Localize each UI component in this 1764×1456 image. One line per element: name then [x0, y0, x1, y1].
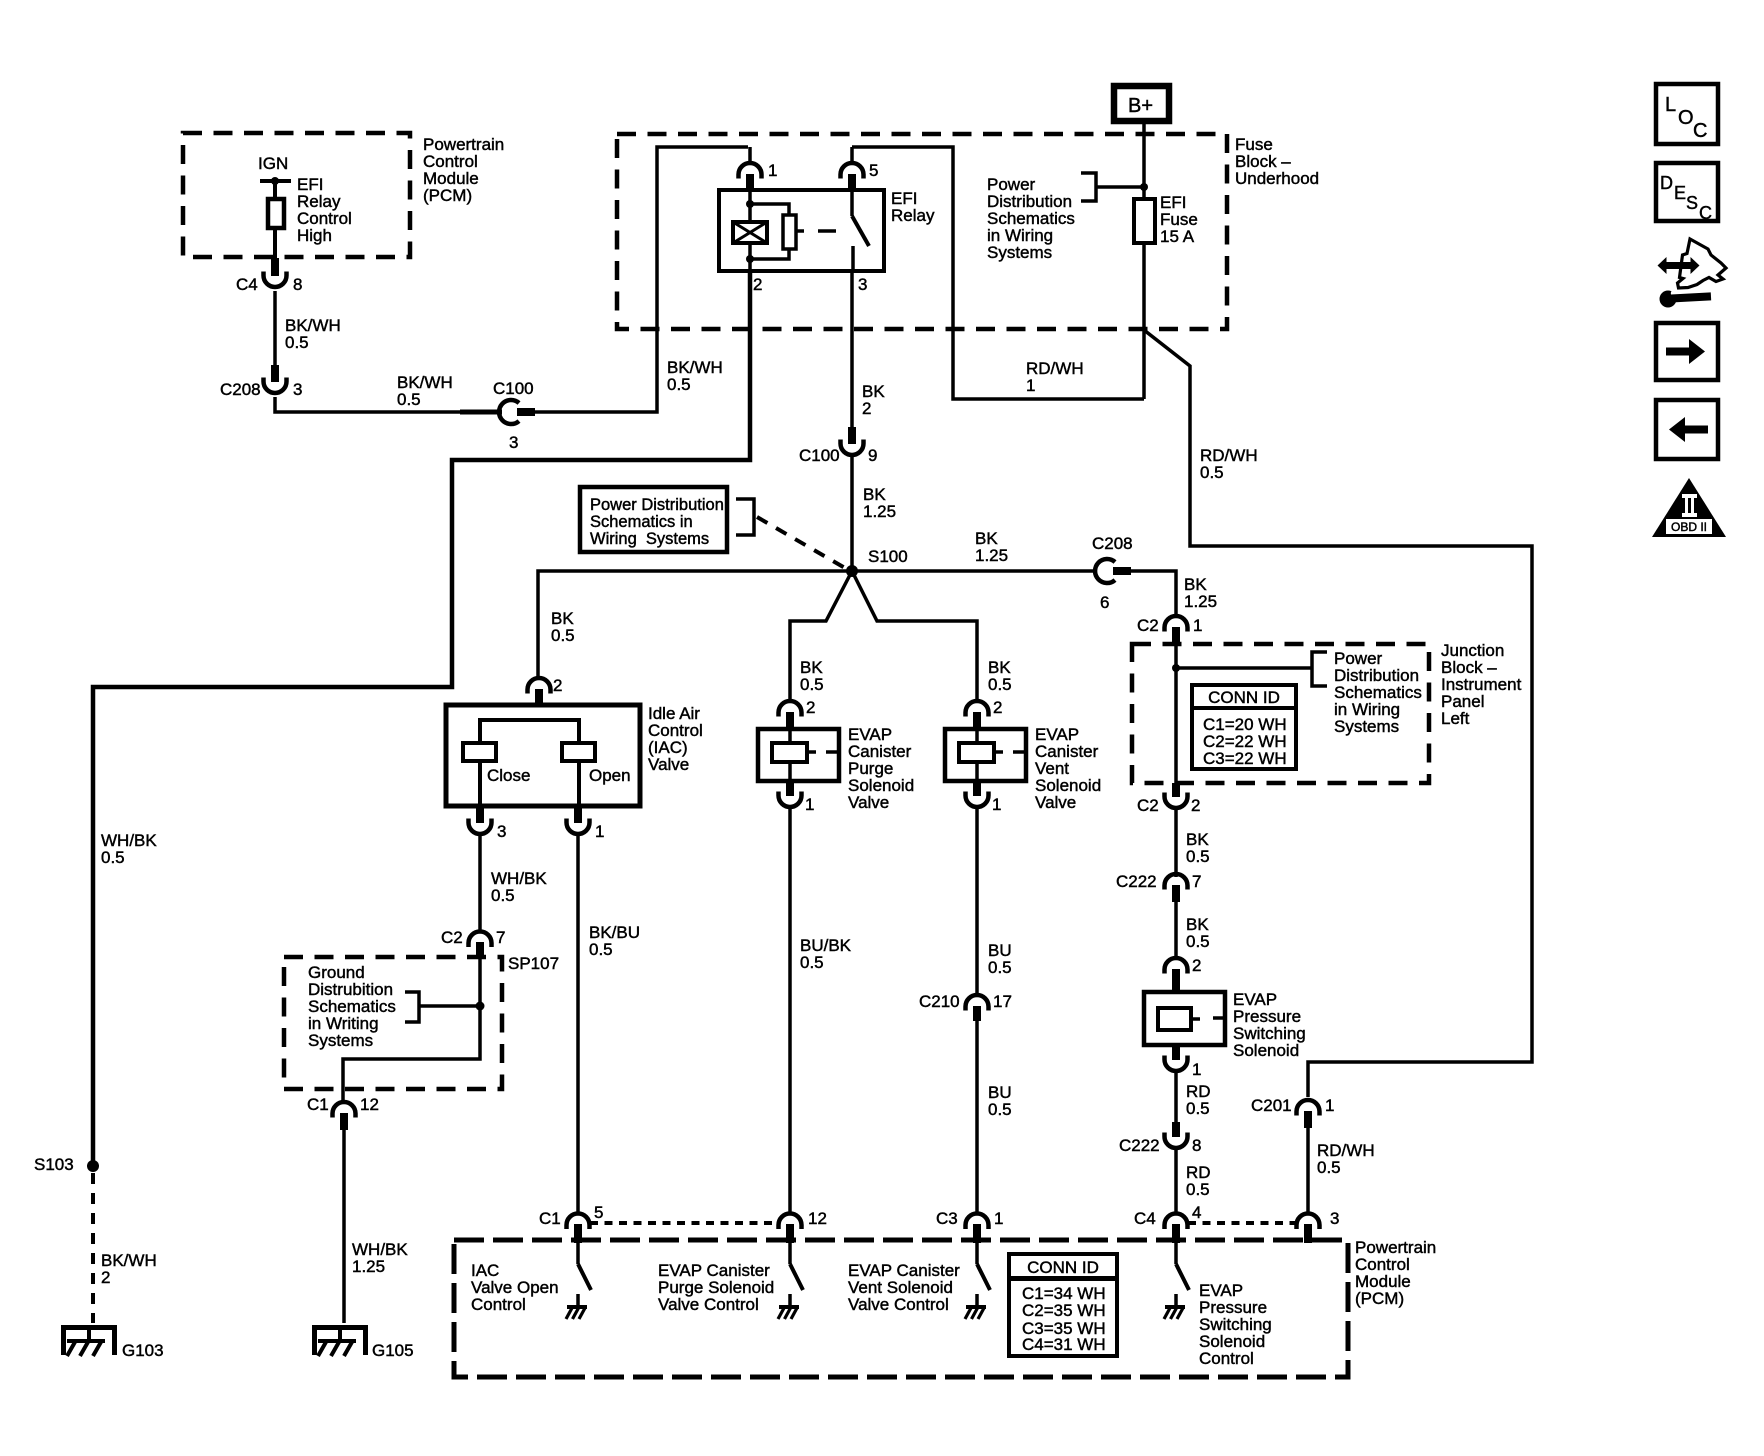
wire label BK 0.5	[1186, 915, 1210, 951]
svg-text:9: 9	[868, 446, 877, 465]
driver pressure switching solenoid control	[1164, 1243, 1189, 1319]
resistor EFI Relay Control High	[268, 199, 284, 228]
svg-text:Left: Left	[1441, 709, 1470, 728]
connector PCM pin 3	[1297, 1214, 1320, 1244]
svg-text:B+: B+	[1128, 95, 1153, 117]
connector C4 pin 4	[1165, 1214, 1188, 1244]
svg-text:Systems: Systems	[1334, 717, 1399, 736]
ground G105	[312, 1325, 368, 1356]
label pin 2	[1191, 796, 1200, 815]
wire C222-7 to solenoid pin2 BK 0.5	[1174, 902, 1178, 960]
label Open	[589, 766, 631, 785]
svg-text:1: 1	[595, 822, 604, 841]
svg-text:7: 7	[496, 928, 505, 947]
label EVAP Canister Vent Solenoid Valve	[1035, 725, 1101, 812]
label C3	[936, 1209, 958, 1228]
label pin 1	[1325, 1096, 1334, 1115]
wire B+ to fuse	[1140, 121, 1148, 199]
label pin 12	[808, 1209, 827, 1228]
svg-text:E: E	[1674, 183, 1686, 203]
label SP107	[508, 954, 559, 973]
connector relay pin 5	[841, 163, 864, 191]
connector PCM pin 12	[779, 1214, 802, 1244]
svg-text:IGN: IGN	[258, 154, 288, 173]
label pin 3	[497, 822, 506, 841]
svg-text:15 A: 15 A	[1160, 227, 1195, 246]
connector pressure solenoid pin 2	[1165, 958, 1188, 992]
svg-text:C4: C4	[236, 275, 258, 294]
connector C1 pin 12	[333, 1102, 356, 1130]
label Ground Distrubition Schematics in Writing Systems	[308, 963, 396, 1050]
svg-text:0.5: 0.5	[988, 675, 1012, 694]
svg-text:C201: C201	[1251, 1096, 1292, 1115]
note box Power Distribution Schematics in Wiring Systems	[580, 487, 727, 552]
label pin 8	[293, 275, 302, 294]
wire IAC pin3 to C2-7 WH/BK	[478, 832, 482, 933]
svg-text:12: 12	[360, 1095, 379, 1114]
IAC open winding	[562, 743, 595, 806]
label Fuse Block - Underhood	[1235, 135, 1319, 188]
svg-text:L: L	[1665, 94, 1676, 116]
svg-text:(PCM): (PCM)	[1355, 1289, 1404, 1308]
label pin 4	[1192, 1203, 1201, 1222]
label pin 2	[553, 676, 562, 695]
label pin 1	[1192, 1060, 1201, 1079]
bracket ground ref	[405, 992, 419, 1022]
driver IAC valve open control	[566, 1243, 591, 1319]
label C1	[307, 1095, 329, 1114]
wire C208-6 to C2-1 BK 1.25	[1131, 571, 1176, 618]
valve Idle Air Control box	[446, 705, 640, 806]
svg-text:1: 1	[1192, 1060, 1201, 1079]
svg-text:5: 5	[594, 1203, 603, 1222]
svg-text:Systems: Systems	[308, 1031, 373, 1050]
connector C210 pin 17	[966, 995, 989, 1021]
svg-text:0.5: 0.5	[491, 886, 515, 905]
svg-text:(PCM): (PCM)	[423, 186, 472, 205]
svg-text:Underhood: Underhood	[1235, 169, 1319, 188]
svg-text:2: 2	[862, 399, 871, 418]
svg-text:2: 2	[753, 275, 762, 294]
bracket note ref	[736, 499, 754, 535]
wire label WH/BK 0.5	[101, 831, 157, 867]
svg-text:0.5: 0.5	[285, 333, 309, 352]
svg-text:0.5: 0.5	[397, 390, 421, 409]
label EVAP Canister Purge Solenoid Valve Control	[658, 1261, 774, 1314]
svg-text:0.5: 0.5	[551, 626, 575, 645]
module box Ground Distribution ref (dashed)	[284, 957, 502, 1089]
dashed link C1-5 to 12	[590, 1221, 778, 1225]
svg-text:0.5: 0.5	[101, 848, 125, 867]
driver vent solenoid control	[965, 1243, 990, 1319]
wire C100-9 to S100 BK 1.25	[850, 453, 854, 566]
connector IAC pin 3	[469, 806, 492, 834]
label Idle Air Control (IAC) Valve	[648, 704, 703, 774]
label pin 3	[509, 433, 518, 452]
relay actuator link	[796, 229, 836, 233]
connector C208 pin 6 (inline)	[1095, 559, 1131, 583]
label Power Distribution Schematics in Wiring Systems	[1334, 649, 1422, 736]
connector pressure solenoid pin 1	[1165, 1045, 1188, 1071]
svg-text:3: 3	[497, 822, 506, 841]
svg-text:1: 1	[994, 1209, 1003, 1228]
label Powertrain Control Module (PCM)	[423, 135, 504, 205]
svg-text:2: 2	[806, 698, 815, 717]
label pin 7	[496, 928, 505, 947]
svg-text:C210: C210	[919, 992, 960, 1011]
svg-text:0.5: 0.5	[1200, 463, 1224, 482]
wire C1-12 to G105 WH/BK 1.25	[342, 1130, 346, 1323]
svg-text:1: 1	[1026, 376, 1035, 395]
label Junction Block - Instrument Panel Left	[1441, 641, 1522, 728]
svg-text:Wiring Systems: Wiring Systems	[590, 530, 709, 548]
label pin 3	[293, 380, 302, 399]
wire S103 to G103 BK/WH 2 (dashed)	[91, 1173, 95, 1323]
fuse EFI Fuse 15A	[1134, 199, 1155, 243]
icon back arrow box	[1656, 400, 1718, 459]
wire label RD 0.5	[1186, 1082, 1211, 1118]
svg-text:C: C	[1699, 203, 1712, 223]
wire label BK 0.5	[1186, 830, 1210, 866]
wire label BU/BK 0.5	[800, 936, 852, 972]
bracket junction ref	[1312, 652, 1327, 686]
label pin 1	[994, 1209, 1003, 1228]
wire label WH/BK 1.25	[352, 1240, 408, 1276]
wire label BK 2	[862, 382, 885, 418]
svg-text:O: O	[1678, 107, 1694, 129]
wire RD/WH 1 fuse to relay pin5	[852, 147, 1144, 399]
label EVAP Canister Purge Solenoid Valve	[848, 725, 914, 812]
svg-text:6: 6	[1100, 593, 1109, 612]
svg-text:Relay: Relay	[891, 206, 935, 225]
wire S100 to vent pin2 BK 0.5	[852, 571, 977, 703]
wire S100 to purge pin2 BK 0.5	[790, 571, 852, 703]
label pin 2	[993, 698, 1002, 717]
svg-text:2: 2	[553, 676, 562, 695]
svg-text:1: 1	[768, 161, 777, 180]
svg-text:C3: C3	[936, 1209, 958, 1228]
svg-text:7: 7	[1192, 872, 1201, 891]
connector C2 pin 1	[1165, 616, 1188, 645]
table CONN ID junction block	[1192, 685, 1296, 769]
svg-text:0.5: 0.5	[589, 940, 613, 959]
wire label BK/WH 0.5	[285, 316, 341, 352]
svg-text:2: 2	[993, 698, 1002, 717]
label EVAP Pressure Switching Solenoid Control	[1199, 1281, 1272, 1368]
wire label BU 0.5	[988, 941, 1012, 977]
svg-text:Open: Open	[589, 766, 631, 785]
wire purge pin1 to PCM 12 BU/BK	[788, 806, 792, 1215]
dashed link C4-4 to 3	[1188, 1221, 1296, 1225]
svg-text:C100: C100	[493, 379, 534, 398]
svg-text:3: 3	[1330, 1209, 1339, 1228]
wire vent pin1 to C210-17 BU	[975, 806, 979, 996]
svg-text:C2: C2	[1137, 616, 1159, 635]
svg-text:Valve: Valve	[1035, 793, 1076, 812]
ground G103	[61, 1325, 117, 1356]
label pin 1	[595, 822, 604, 841]
svg-text:C100: C100	[799, 446, 840, 465]
label C210	[919, 992, 960, 1011]
label pin 1	[1193, 616, 1202, 635]
node IGN tap	[260, 177, 291, 185]
svg-text:0.5: 0.5	[800, 953, 824, 972]
label IAC Valve Open Control	[471, 1261, 559, 1314]
wire label BK/WH 0.5	[667, 358, 723, 394]
icon wrench and arrows	[1658, 239, 1727, 308]
wire fuse tap to bracket	[1096, 185, 1144, 189]
connector C2 pin 2	[1165, 783, 1188, 808]
solenoid winding	[1158, 1008, 1225, 1030]
svg-text:Control: Control	[1199, 1349, 1254, 1368]
wire label BK/WH 2	[101, 1251, 157, 1287]
connector C100 pin 9	[841, 427, 864, 455]
wire RD/WH 0.5 branch right side	[1144, 330, 1532, 1097]
label C100	[493, 379, 534, 398]
svg-text:C208: C208	[220, 380, 261, 399]
module box Junction Block (dashed)	[1132, 644, 1429, 783]
svg-text:Valve Control: Valve Control	[848, 1295, 949, 1314]
svg-text:3: 3	[293, 380, 302, 399]
svg-text:SP107: SP107	[508, 954, 559, 973]
splice S103	[87, 1160, 99, 1172]
connector C100 pin 3 (inline)	[460, 400, 535, 424]
icon DESC box	[1656, 163, 1718, 223]
connector C1 pin 5	[567, 1214, 590, 1244]
wire label RD 0.5	[1186, 1163, 1211, 1199]
module box Fuse Block Underhood (dashed)	[617, 134, 1227, 329]
label Close	[487, 766, 530, 785]
svg-text:Close: Close	[487, 766, 530, 785]
wire C2-2 to C222-7 BK 0.5	[1174, 806, 1178, 877]
svg-text:0.5: 0.5	[1186, 847, 1210, 866]
wire C210-17 to C3-1 BU	[975, 1021, 979, 1215]
wire pin1 to C222-8 RD 0.5	[1174, 1069, 1178, 1122]
relay EFI Relay box	[719, 190, 884, 271]
label C208	[1092, 534, 1133, 553]
svg-text:C1: C1	[307, 1095, 329, 1114]
splice S100	[846, 565, 858, 577]
label EVAP Pressure Switching Solenoid	[1233, 990, 1306, 1060]
svg-text:4: 4	[1192, 1203, 1201, 1222]
svg-text:5: 5	[869, 161, 878, 180]
solenoid EVAP Pressure Switching Solenoid box	[1144, 992, 1225, 1045]
svg-text:1: 1	[805, 795, 814, 814]
wire IAC pin1 to C1-5 BK/BU	[576, 832, 580, 1215]
connector vent pin 1	[966, 781, 989, 807]
wire label BK 0.5	[551, 609, 575, 645]
connector purge pin 1	[779, 781, 802, 807]
svg-text:C4=31 WH: C4=31 WH	[1022, 1335, 1106, 1354]
wire relay pin1 lead	[748, 147, 752, 165]
wire relay pin5 lead	[850, 147, 854, 165]
svg-text:8: 8	[1192, 1136, 1201, 1155]
label pin 3	[1330, 1209, 1339, 1228]
connector C3 pin 1	[966, 1214, 989, 1244]
svg-text:0.5: 0.5	[1186, 1099, 1210, 1118]
IAC close winding	[463, 743, 496, 806]
relay parallel resistor	[750, 204, 796, 259]
label G103	[122, 1341, 164, 1360]
svg-text:C222: C222	[1116, 872, 1157, 891]
svg-text:1: 1	[992, 795, 1001, 814]
wire label BK 1.25	[863, 485, 896, 521]
svg-text:CONN ID: CONN ID	[1027, 1258, 1099, 1277]
wire bracket to SP107 node	[419, 1004, 480, 1008]
svg-text:G105: G105	[372, 1341, 414, 1360]
svg-text:C2: C2	[1137, 796, 1159, 815]
relay coil symbol	[733, 222, 767, 243]
svg-text:1: 1	[1193, 616, 1202, 635]
svg-text:S103: S103	[34, 1155, 74, 1174]
label pin 5	[869, 161, 878, 180]
wire IGN to resistor	[273, 181, 277, 199]
label EVAP Canister Vent Solenoid Valve Control	[848, 1261, 960, 1314]
label C4	[1134, 1209, 1156, 1228]
svg-text:1.25: 1.25	[352, 1257, 385, 1276]
svg-text:1: 1	[1325, 1096, 1334, 1115]
svg-text:C3=22 WH: C3=22 WH	[1203, 749, 1287, 768]
wire relay pin3 BK 2	[850, 271, 854, 427]
svg-text:Schematics in: Schematics in	[590, 513, 693, 531]
label pin 8	[1192, 1136, 1201, 1155]
power symbol B+	[1114, 86, 1169, 121]
label pin 2	[806, 698, 815, 717]
connector C208 pin 3	[264, 365, 287, 393]
svg-text:8: 8	[293, 275, 302, 294]
svg-text:3: 3	[509, 433, 518, 452]
wire S100 to C208-6 BK 1.25	[852, 569, 1096, 573]
wire label BK 0.5	[988, 658, 1012, 694]
label Powertrain Control Module (PCM)	[1355, 1238, 1436, 1308]
wire dashed ref to S100	[757, 517, 845, 568]
label C4	[236, 275, 258, 294]
svg-text:Solenoid: Solenoid	[1233, 1041, 1299, 1060]
svg-text:C4: C4	[1134, 1209, 1156, 1228]
solenoid EVAP Canister Vent box	[945, 729, 1026, 781]
connector IAC pin 2	[528, 678, 551, 706]
svg-text:0.5: 0.5	[1186, 1180, 1210, 1199]
label EFI Relay Control High	[297, 175, 352, 245]
wire tap to bracket	[1176, 666, 1312, 670]
svg-text:C2=35 WH: C2=35 WH	[1022, 1301, 1106, 1320]
wire label BK 1.25	[1184, 575, 1217, 611]
label pin 1	[805, 795, 814, 814]
connector C222 pin 8	[1165, 1122, 1188, 1148]
label pin 2	[753, 275, 762, 294]
svg-text:1.25: 1.25	[975, 546, 1008, 565]
label C222	[1116, 872, 1157, 891]
svg-text:0.5: 0.5	[667, 375, 691, 394]
note text	[590, 496, 724, 548]
label pin 6	[1100, 593, 1109, 612]
label pin 7	[1192, 872, 1201, 891]
svg-text:0.5: 0.5	[800, 675, 824, 694]
label C2	[441, 928, 463, 947]
icon LOC box	[1656, 84, 1718, 144]
solenoid EVAP Canister Purge box	[758, 729, 839, 781]
label EFI Fuse 15 A	[1160, 193, 1198, 246]
connector IAC pin 1	[567, 806, 590, 834]
svg-text:S: S	[1686, 193, 1698, 213]
label C208	[220, 380, 261, 399]
icon forward arrow box	[1656, 323, 1718, 380]
svg-text:Systems: Systems	[987, 243, 1052, 262]
connector C4 pin 8	[264, 258, 287, 287]
wire label BK/WH 0.5	[397, 373, 453, 409]
connector relay pin 1	[739, 163, 762, 191]
svg-text:Power Distribution: Power Distribution	[590, 496, 724, 514]
wire fuse down RD/WH	[1142, 243, 1146, 399]
svg-text:OBD II: OBD II	[1671, 520, 1707, 534]
svg-text:2: 2	[1192, 956, 1201, 975]
wire S100 to IAC pin2 BK 0.5	[538, 571, 852, 680]
svg-text:0.5: 0.5	[1317, 1158, 1341, 1177]
svg-text:12: 12	[808, 1209, 827, 1228]
label pin 2	[1192, 956, 1201, 975]
svg-text:Valve Control: Valve Control	[658, 1295, 759, 1314]
bracket power distribution ref	[1081, 173, 1096, 201]
driver purge solenoid control	[778, 1243, 803, 1319]
wire C222-8 to C4-4 RD 0.5	[1174, 1146, 1178, 1215]
wire label BK/BU 0.5	[589, 923, 640, 959]
svg-text:1.25: 1.25	[863, 502, 896, 521]
wire label WH/BK 0.5	[491, 869, 547, 905]
svg-text:0.5: 0.5	[988, 958, 1012, 977]
connector C222 pin 7	[1165, 874, 1188, 902]
wire C201-1 to PCM pin3 RD/WH 0.5	[1306, 1128, 1310, 1215]
wire label RD/WH 1	[1026, 359, 1084, 395]
net label IGN	[258, 154, 288, 173]
svg-text:0.5: 0.5	[1186, 932, 1210, 951]
svg-text:Valve: Valve	[648, 755, 689, 774]
wire label RD/WH 0.5	[1317, 1141, 1375, 1177]
label G105	[372, 1341, 414, 1360]
svg-text:C: C	[1693, 120, 1707, 142]
icon OBD II triangle	[1652, 478, 1726, 537]
svg-text:S100: S100	[868, 547, 908, 566]
label pin 17	[993, 992, 1012, 1011]
relay switch	[852, 191, 869, 271]
wire label BU 0.5	[988, 1083, 1012, 1119]
label pin 3	[858, 275, 867, 294]
svg-text:17: 17	[993, 992, 1012, 1011]
svg-text:1.25: 1.25	[1184, 592, 1217, 611]
svg-text:C208: C208	[1092, 534, 1133, 553]
svg-text:0.5: 0.5	[988, 1100, 1012, 1119]
svg-text:C2: C2	[441, 928, 463, 947]
label S103	[34, 1155, 74, 1174]
wire WH/BK 0.5 relay pin2 to S103	[93, 271, 750, 1161]
connector C2 pin 7	[469, 932, 492, 959]
svg-text:CONN ID: CONN ID	[1208, 688, 1280, 707]
connector C201 pin 1	[1297, 1100, 1320, 1128]
svg-text:G103: G103	[122, 1341, 164, 1360]
table CONN ID PCM	[1009, 1254, 1117, 1356]
label pin 1	[992, 795, 1001, 814]
vent winding	[959, 730, 1026, 781]
wire C4-8 to C208-3 BK/WH	[273, 291, 277, 365]
wire label BK 0.5	[800, 658, 824, 694]
connector vent pin 2	[966, 701, 989, 730]
svg-text:3: 3	[858, 275, 867, 294]
label pin 12	[360, 1095, 379, 1114]
svg-text:High: High	[297, 226, 332, 245]
label C222	[1119, 1136, 1160, 1155]
label pin 1	[768, 161, 777, 180]
wire label RD/WH 0.5	[1200, 446, 1258, 482]
svg-text:Valve: Valve	[848, 793, 889, 812]
